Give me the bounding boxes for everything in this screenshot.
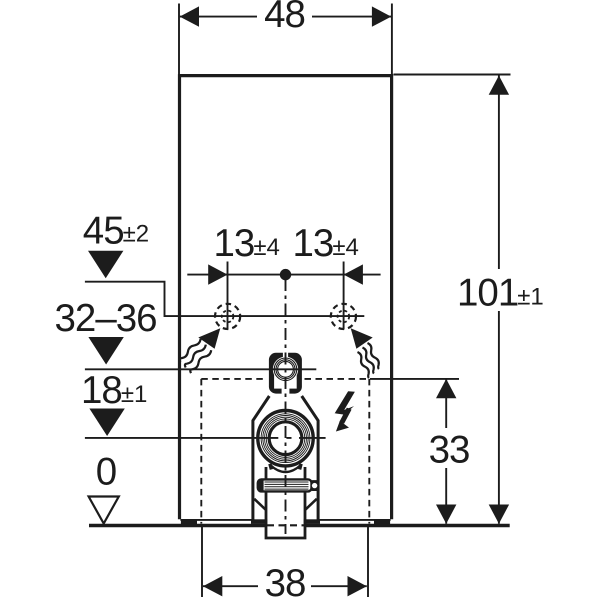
dim 33 line bbox=[445, 379, 447, 524]
dim 13 line bbox=[187, 274, 380, 276]
bowl tick right bbox=[300, 464, 302, 470]
collar ring 2 bbox=[276, 360, 295, 379]
dim 13 arrow left bbox=[208, 264, 227, 284]
frame/funnel outline left bbox=[253, 396, 269, 521]
frame foot right bbox=[304, 519, 320, 524]
collar hole bbox=[273, 357, 298, 382]
dim 38 line bbox=[203, 585, 367, 587]
dim 33 arrow down bbox=[436, 505, 456, 524]
dim 101 arrow up bbox=[489, 76, 509, 95]
floor line dashed under pipe bbox=[267, 524, 305, 526]
brace right bbox=[305, 499, 317, 510]
collar ring 3 bbox=[278, 361, 294, 377]
dim 48 arrow left bbox=[180, 6, 199, 26]
collar top channel bbox=[283, 352, 288, 358]
marker triangle 32-36 bbox=[88, 337, 123, 365]
clamp left cap bbox=[258, 479, 264, 491]
svg-text:45±2: 45±2 bbox=[83, 209, 149, 252]
svg-text:48: 48 bbox=[264, 0, 305, 36]
panel foot left bbox=[181, 520, 197, 524]
dim 101 arrow down bbox=[489, 505, 509, 524]
supply circle left inner bbox=[222, 311, 234, 323]
marker triangle 0 open bbox=[89, 497, 119, 524]
brace left bbox=[254, 499, 266, 510]
supply circle right inner bbox=[338, 311, 350, 323]
frame/funnel outline right bbox=[302, 396, 318, 521]
lightning bolt bbox=[335, 391, 355, 431]
dashed installation box bbox=[201, 379, 369, 524]
dim 38 extension lines bbox=[202, 525, 368, 597]
floor line bbox=[89, 524, 267, 528]
marker triangle 18 bbox=[89, 409, 124, 437]
bowl arc bbox=[270, 465, 301, 473]
marker triangle 45 bbox=[88, 251, 123, 279]
collar interior clear bbox=[274, 371, 297, 389]
centerline vertical bbox=[285, 279, 287, 534]
svg-text:13±4: 13±4 bbox=[214, 222, 280, 265]
drain ring thin 1 bbox=[261, 414, 310, 463]
collar bottom flange gap bbox=[282, 386, 290, 394]
frame foot left bbox=[251, 519, 267, 524]
dim 48 extension lines bbox=[179, 4, 392, 75]
svg-text:38: 38 bbox=[265, 562, 306, 597]
supply collar block bbox=[269, 353, 302, 394]
panel outline bbox=[178, 74, 393, 519]
drain pipe walls bbox=[265, 467, 307, 538]
level line 32-36 bbox=[85, 368, 316, 370]
svg-text:32–36: 32–36 bbox=[55, 297, 157, 340]
clamp right clip hole bbox=[312, 483, 317, 488]
panel foot right bbox=[374, 520, 390, 524]
dim 13 tick left bbox=[227, 262, 229, 330]
clamp bar bbox=[258, 479, 312, 491]
clamp right clip bbox=[311, 480, 319, 491]
drain ring thin 2 bbox=[263, 416, 308, 461]
bowl tick left bbox=[270, 464, 272, 470]
squiggle arrow right bbox=[351, 328, 379, 378]
svg-text:33: 33 bbox=[429, 429, 470, 472]
dim 13 arrow right bbox=[344, 264, 363, 284]
svg-text:0: 0 bbox=[96, 450, 116, 493]
clamp inner lines bbox=[265, 482, 309, 489]
dim 33 arrow up bbox=[436, 379, 456, 398]
squiggle arrow left bbox=[180, 328, 221, 373]
level line 18 bbox=[85, 437, 326, 439]
svg-text:18±1: 18±1 bbox=[81, 369, 147, 412]
panel bottom edge bbox=[180, 519, 390, 521]
drain outer circle bbox=[258, 411, 313, 466]
level line 45 leader bbox=[85, 282, 364, 316]
dim 101 line bbox=[498, 76, 500, 524]
drain ring thin 4 bbox=[266, 419, 305, 458]
svg-text:13±4: 13±4 bbox=[293, 222, 359, 265]
supply circle left dashed bbox=[215, 304, 240, 329]
dim 48 line bbox=[180, 16, 392, 18]
svg-text:101±1: 101±1 bbox=[457, 271, 544, 314]
dim 101 extension line bbox=[394, 74, 511, 76]
dim 13 tick right bbox=[343, 262, 345, 330]
dim 38 arrow left bbox=[203, 576, 222, 596]
drain inner circle bbox=[269, 422, 302, 455]
dim 33 extension line bbox=[370, 378, 459, 380]
dim 48 arrow right bbox=[372, 6, 391, 26]
supply circle right dashed bbox=[331, 304, 356, 329]
drain ring thin 3 bbox=[265, 417, 307, 459]
dim 38 arrow right bbox=[348, 576, 367, 596]
dim 13 center dot bbox=[280, 269, 291, 280]
collar ring 1 bbox=[274, 358, 297, 381]
